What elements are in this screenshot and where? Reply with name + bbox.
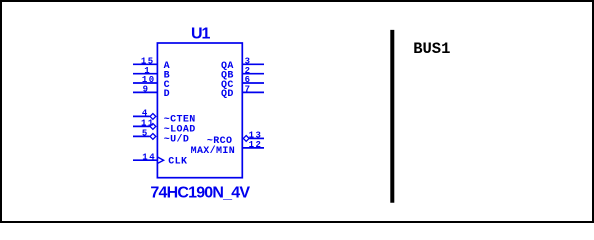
pin 7 wire (QD): [242, 91, 264, 93]
pin 9 wire (D): [133, 91, 157, 93]
pin 11 number: [141, 119, 155, 129]
pin 1 number: [144, 66, 151, 76]
pin 5 number: [142, 129, 149, 139]
svg-text:9: 9: [143, 85, 150, 95]
clock triangle: [158, 157, 164, 163]
svg-text:QD: QD: [221, 89, 234, 100]
svg-text:BUS1: BUS1: [413, 40, 450, 58]
bus label BUS1: [413, 40, 450, 58]
pin 7 number: [245, 85, 252, 95]
svg-text:12: 12: [249, 140, 263, 150]
svg-text:11: 11: [141, 119, 155, 129]
pin 13 inversion bubble: [243, 136, 249, 142]
svg-text:74HC190N_4V: 74HC190N_4V: [150, 184, 250, 201]
pin 14 wire (CLK): [133, 159, 157, 161]
pin label QB: [221, 71, 234, 82]
pin label ~RCO: [207, 136, 232, 147]
pin 4 wire (~CTEN): [133, 115, 150, 117]
pin 11 wire (~LOAD): [133, 125, 150, 127]
svg-text:U1: U1: [191, 25, 211, 42]
pin 13 wire (~RCO): [249, 137, 264, 139]
pin label A: [164, 61, 170, 72]
pin 13 number: [249, 131, 263, 141]
pin label D: [164, 89, 170, 100]
pin 15 number: [141, 57, 155, 67]
refdes label U1: [191, 25, 211, 42]
svg-text:4: 4: [142, 109, 149, 119]
pin 6 number: [245, 75, 252, 85]
pin label B: [164, 71, 170, 82]
pin 9 number: [143, 85, 150, 95]
pin label QC: [221, 80, 234, 91]
part value label 74HC190N_4V: [150, 184, 250, 201]
pin 12 number: [249, 140, 263, 150]
pin 15 wire (A): [133, 63, 157, 65]
svg-text:5: 5: [142, 129, 149, 139]
svg-text:7: 7: [245, 85, 252, 95]
pin 6 wire (QC): [242, 82, 264, 84]
svg-text:MAX/MIN: MAX/MIN: [191, 145, 235, 157]
pin label QA: [221, 61, 234, 72]
pin 10 wire (C): [133, 82, 157, 84]
pin 1 wire (B): [133, 73, 157, 75]
pin label ~CTEN: [164, 115, 196, 126]
pin label C: [164, 80, 170, 91]
pin 3 wire (QA): [242, 63, 264, 65]
IC U1 body (74HC190N): [157, 43, 242, 178]
pin 10 number: [142, 75, 156, 85]
pin 5 inversion bubble: [150, 134, 156, 140]
pin 12 wire (MAX/MIN): [242, 147, 264, 149]
pin 4 number: [142, 109, 149, 119]
svg-text:13: 13: [249, 131, 263, 141]
pin 4 inversion bubble: [150, 114, 156, 120]
pin 11 inversion bubble: [150, 124, 156, 130]
pin 14 number: [142, 153, 156, 163]
pin 5 wire (~U/D): [133, 135, 150, 137]
pin label MAX/MIN: [191, 145, 235, 157]
bus BUS1 vertical line: [390, 30, 394, 203]
pin 3 number: [245, 57, 252, 67]
svg-text:CLK: CLK: [168, 157, 187, 168]
pin label QD: [221, 89, 234, 100]
pin 2 number: [245, 66, 252, 76]
svg-text:~U/D: ~U/D: [164, 134, 189, 146]
pin label ~U/D: [164, 134, 189, 146]
pin 2 wire (QB): [242, 73, 264, 75]
pin label ~LOAD: [164, 125, 196, 136]
pin label CLK: [168, 157, 187, 168]
svg-text:14: 14: [142, 153, 156, 163]
svg-text:D: D: [164, 89, 170, 100]
